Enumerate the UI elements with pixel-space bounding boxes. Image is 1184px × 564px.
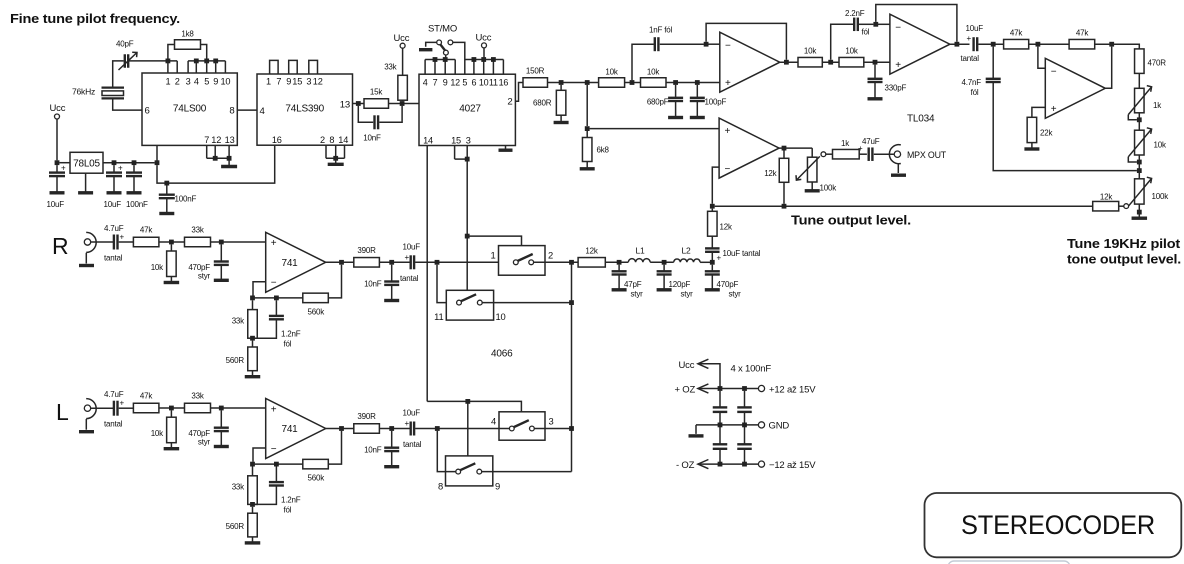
- node: R fb node A: [250, 296, 255, 301]
- capacitor 1.2nF fol (R): [255, 300, 301, 348]
- capacitor 10uF tantal (L out): [403, 409, 422, 450]
- label 4066: [491, 349, 513, 360]
- node: pin8 bottom junction: [333, 156, 338, 161]
- capacitor 470pF styr (L): [188, 410, 228, 446]
- capacitor 470pF styr (R): [188, 244, 228, 280]
- capacitor 4.7uF tantal (R): [104, 224, 125, 263]
- svg-text:10k: 10k: [151, 429, 164, 438]
- wire to opamp U4A +: [666, 82, 720, 84]
- capacitor 40pF trimmer: [116, 40, 137, 71]
- svg-text:+12 až 15V: +12 až 15V: [769, 384, 816, 395]
- svg-text:12k: 12k: [764, 169, 777, 178]
- resistor 1k (mpx): [833, 139, 860, 159]
- node: U4A output: [784, 60, 789, 65]
- resistor 10k (d): [839, 47, 864, 67]
- svg-text:7: 7: [276, 77, 281, 87]
- svg-text:−12 až 15V: −12 až 15V: [769, 460, 816, 471]
- svg-text:47pF: 47pF: [624, 280, 642, 289]
- resistor 15k: [364, 88, 389, 109]
- svg-text:470pF: 470pF: [717, 280, 739, 289]
- svg-text:8: 8: [438, 481, 443, 492]
- power net Ucc (osc): [394, 33, 410, 75]
- node: 6k8 branch junction: [585, 80, 590, 85]
- wire R inverting input: [253, 282, 266, 296]
- svg-text:fól: fól: [284, 340, 292, 349]
- capacitor 10uF (output): [104, 164, 124, 210]
- node: -OZ rail A: [718, 462, 723, 467]
- resistor 560R (L): [226, 507, 261, 543]
- wire L output: [326, 428, 354, 430]
- wire 1k to 10k: [1138, 113, 1140, 130]
- IC U1 74LS00: [142, 73, 237, 145]
- capacitor 10nF (osc): [358, 106, 402, 143]
- svg-text:8: 8: [329, 135, 334, 145]
- svg-text:Ucc: Ucc: [679, 360, 695, 371]
- connector L input: [56, 399, 96, 432]
- svg-text:680pF: 680pF: [647, 98, 669, 107]
- resistor 390R (R): [354, 246, 380, 267]
- svg-text:4: 4: [194, 77, 199, 87]
- node: L fb node A: [250, 462, 255, 467]
- svg-text:78L05: 78L05: [73, 159, 100, 170]
- svg-text:3: 3: [186, 77, 191, 87]
- node: -OZ rail B: [742, 462, 747, 467]
- svg-text:1k: 1k: [841, 139, 850, 148]
- capacitor 100nF (output): [126, 165, 148, 209]
- node: R 10nF junction: [389, 260, 394, 265]
- resistor 6k8: [580, 131, 610, 169]
- svg-text:Fine tune pilot frequency.: Fine tune pilot frequency.: [10, 12, 180, 26]
- node: 100nF decoupling junction: [164, 181, 169, 186]
- wire L2 out: [700, 261, 712, 263]
- wire U4B feedback: [876, 5, 957, 42]
- wire to U4D inverting input: [1038, 47, 1045, 69]
- svg-text:4 x 100nF: 4 x 100nF: [731, 364, 772, 375]
- wire 4.7nF to ladder tap: [993, 82, 1137, 171]
- wire 12k to L1: [605, 261, 628, 263]
- svg-text:10uF tantal: 10uF tantal: [723, 249, 761, 258]
- wire 470R to 1k: [1138, 73, 1140, 88]
- svg-text:Ucc: Ucc: [394, 33, 410, 44]
- wire U4C output: [779, 147, 812, 149]
- wire switch1-2 out: [534, 261, 579, 263]
- svg-text:3: 3: [549, 416, 554, 427]
- wire supply rail to 74LS390 pin16: [157, 145, 275, 183]
- label 4x100nF: [731, 364, 772, 375]
- node: 330pF junction: [873, 60, 878, 65]
- wire U4D output: [1105, 47, 1111, 89]
- svg-text:741: 741: [281, 258, 298, 269]
- svg-text:+: +: [271, 404, 277, 415]
- power net +OZ: [675, 384, 759, 395]
- svg-text:tantal: tantal: [961, 54, 980, 63]
- svg-text:47k: 47k: [1076, 29, 1089, 38]
- wire 47k-33k (R): [159, 241, 185, 243]
- svg-text:13: 13: [340, 100, 350, 111]
- node: control R junction: [465, 234, 470, 239]
- wire control L-group: [427, 401, 521, 456]
- svg-text:10uF: 10uF: [47, 200, 65, 209]
- wire 150R to 10k: [548, 82, 599, 84]
- node: pin9 bus junction: [443, 57, 448, 62]
- wire psu mid A: [719, 412, 721, 444]
- svg-text:12k: 12k: [1100, 193, 1113, 202]
- svg-text:33k: 33k: [232, 483, 245, 492]
- svg-text:Ucc: Ucc: [476, 33, 492, 44]
- svg-text:14: 14: [338, 135, 348, 145]
- svg-text:+: +: [725, 126, 731, 137]
- node: R 470pF junction: [219, 240, 224, 245]
- wire pin8 to 74LS390 pin4: [237, 109, 257, 111]
- svg-text:+: +: [725, 78, 731, 89]
- wire to opamp U4C +: [590, 128, 720, 130]
- svg-text:7: 7: [433, 78, 438, 88]
- svg-text:560k: 560k: [308, 308, 326, 317]
- svg-text:2.2nF: 2.2nF: [845, 9, 865, 18]
- node: bus top junction: [569, 260, 574, 265]
- capacitor 680pF: [647, 85, 683, 118]
- svg-text:10k: 10k: [1154, 141, 1167, 150]
- svg-text:+: +: [405, 419, 410, 428]
- capacitor 10nF (R): [364, 265, 399, 301]
- svg-text:470R: 470R: [1148, 59, 1167, 68]
- wire Ucc rail into regulator: [59, 162, 70, 164]
- node: pin7 bus junction: [433, 57, 438, 62]
- capacitor 4.7uF tantal (L): [104, 390, 125, 429]
- svg-text:15: 15: [292, 77, 302, 87]
- connector MPX OUT: [889, 145, 946, 176]
- svg-text:L2: L2: [681, 246, 691, 256]
- capacitor 10uF (input): [47, 164, 67, 210]
- svg-text:6: 6: [471, 78, 476, 88]
- svg-text:1.2nF: 1.2nF: [281, 330, 301, 339]
- svg-text:R: R: [52, 233, 68, 259]
- node: 1nF branch junction: [630, 80, 635, 85]
- svg-text:12: 12: [211, 135, 221, 145]
- wire GND row: [696, 424, 758, 426]
- svg-text:47k: 47k: [140, 226, 153, 235]
- wire switch11-10 out: [482, 302, 571, 304]
- wire 10uF to switch (R): [415, 261, 513, 263]
- svg-text:10nF: 10nF: [364, 280, 382, 289]
- svg-text:styr: styr: [198, 272, 211, 281]
- capacitor 100nF (psu B1): [737, 391, 752, 412]
- svg-text:+: +: [61, 164, 66, 173]
- resistor 33k (pullup): [384, 63, 407, 102]
- ground psu: [689, 425, 704, 436]
- wire pins 3-10 strap: [188, 60, 225, 62]
- svg-text:L: L: [56, 399, 69, 425]
- node: 120pF junction: [662, 260, 667, 265]
- svg-text:L1: L1: [635, 246, 645, 256]
- svg-text:10: 10: [496, 311, 506, 322]
- ground 74LS390 pins: [328, 158, 344, 164]
- op-amp U4D (TL034): [1045, 58, 1105, 118]
- svg-text:9: 9: [495, 481, 500, 492]
- wire 74LS00 power stub: [156, 145, 158, 162]
- svg-text:100k: 100k: [1152, 192, 1170, 201]
- resistor 22k: [1024, 117, 1053, 149]
- wire R fb rail: [253, 297, 303, 299]
- node: 4.7nF tap junction: [1137, 168, 1142, 173]
- svg-text:3: 3: [306, 77, 311, 87]
- svg-text:4: 4: [491, 416, 496, 427]
- ground 78L05: [78, 173, 93, 193]
- svg-text:10: 10: [479, 78, 489, 88]
- resistor 560k (R): [303, 265, 342, 317]
- resistor 12k (feedback): [764, 151, 789, 204]
- svg-text:fól: fól: [862, 28, 870, 37]
- svg-text:10k: 10k: [151, 263, 164, 272]
- resistor 10k (a): [599, 68, 625, 88]
- svg-text:1nF fól: 1nF fól: [649, 26, 672, 35]
- svg-text:330pF: 330pF: [885, 84, 907, 93]
- resistor 1k8: [168, 30, 207, 59]
- svg-text:10uF: 10uF: [403, 243, 421, 252]
- wire 6k8 branch: [586, 85, 588, 126]
- svg-text:styr: styr: [631, 290, 644, 299]
- svg-text:+: +: [967, 34, 972, 43]
- svg-text:33k: 33k: [384, 63, 397, 72]
- crystal X1 76kHz: [72, 87, 124, 99]
- svg-text:4066: 4066: [491, 349, 513, 360]
- svg-text:10k: 10k: [605, 68, 618, 77]
- svg-text:−: −: [725, 164, 731, 175]
- label tune 19khz: [1067, 236, 1181, 267]
- svg-text:tantal: tantal: [104, 420, 123, 429]
- resistor 390R (L): [354, 412, 380, 433]
- resistor 33k (R fb): [232, 300, 258, 338]
- node: filter out junction: [710, 260, 715, 265]
- svg-text:1k: 1k: [1153, 101, 1162, 110]
- svg-text:560R: 560R: [226, 356, 245, 365]
- svg-text:120pF: 120pF: [669, 280, 691, 289]
- wire L1 to L2: [650, 261, 674, 263]
- svg-text:22k: 22k: [1040, 129, 1053, 138]
- svg-text:12: 12: [313, 77, 323, 87]
- svg-text:+: +: [271, 238, 277, 249]
- svg-text:15: 15: [451, 135, 461, 145]
- wire switch4-3 out: [534, 428, 571, 430]
- node: control L junction: [465, 399, 470, 404]
- capacitor 100nF (psu B2): [737, 444, 752, 464]
- wire 47k-33k (L): [159, 407, 185, 409]
- svg-text:styr: styr: [729, 290, 742, 299]
- wire 10uF to switch (L): [415, 428, 509, 430]
- svg-text:10nF: 10nF: [363, 134, 381, 143]
- svg-text:MPX OUT: MPX OUT: [907, 150, 946, 161]
- node: pin13 junction A: [356, 101, 361, 106]
- resistor 560R (R): [226, 341, 261, 377]
- switch 4066 8-9: [438, 456, 500, 492]
- node: 10uF out junction: [112, 160, 117, 165]
- node: +OZ rail A: [718, 386, 723, 391]
- svg-text:styr: styr: [681, 290, 694, 299]
- wire R output: [326, 261, 354, 263]
- svg-text:Tune 19KHz pilot: Tune 19KHz pilot: [1067, 236, 1181, 251]
- node: U4C output: [782, 146, 787, 151]
- node: pin12 bottom junction: [213, 156, 218, 161]
- node: L 10k junction: [169, 406, 174, 411]
- resistor 47k (b): [1069, 29, 1095, 49]
- inductor L2: [674, 246, 700, 263]
- svg-text:GND: GND: [769, 421, 790, 432]
- power net -OZ: [676, 460, 758, 471]
- label box STEREOCODER: [925, 493, 1182, 557]
- wire 390R to 10uF (L): [379, 428, 410, 430]
- node: GND rail A: [718, 423, 723, 428]
- capacitor 47uF: [858, 137, 880, 161]
- switch 4066 4-3: [491, 412, 554, 440]
- connector R input: [52, 232, 96, 265]
- svg-text:ST/MO: ST/MO: [428, 24, 457, 35]
- svg-text:390R: 390R: [357, 246, 376, 255]
- wire pin strap 3-12: [309, 60, 318, 74]
- svg-text:fól: fól: [284, 506, 292, 515]
- terminal -12: [758, 460, 816, 471]
- resistor 470R: [1135, 49, 1167, 74]
- wire crystal to pin 6: [113, 100, 142, 111]
- svg-text:styr: styr: [198, 438, 211, 447]
- potentiometer 10k: [1128, 128, 1167, 162]
- wires 74LS390 bottom pins 2,8,14: [326, 145, 345, 158]
- capacitor 330pF: [868, 65, 907, 99]
- node: pin13 junction B: [400, 101, 405, 106]
- node: U4B inverting input: [873, 22, 878, 27]
- wire U4B output: [950, 43, 970, 45]
- switch 4066 1-2: [490, 246, 553, 276]
- svg-text:1: 1: [490, 250, 495, 261]
- node: R fb node B: [274, 296, 279, 301]
- wire to opamp (L): [211, 407, 266, 409]
- wire U4C inverting input: [712, 167, 719, 204]
- wire 40pF to crystal: [113, 61, 124, 87]
- wires 4027 top pin risers: [425, 60, 503, 75]
- svg-text:9: 9: [443, 78, 448, 88]
- svg-text:−: −: [271, 278, 277, 289]
- resistor 47k (R): [133, 226, 159, 247]
- svg-text:100pF: 100pF: [705, 98, 727, 107]
- node: L 33k bottom: [250, 502, 255, 507]
- svg-text:11: 11: [434, 311, 443, 322]
- svg-text:Ucc: Ucc: [50, 103, 66, 114]
- node: 680R junction: [559, 80, 564, 85]
- resistor 10k (b): [641, 68, 667, 88]
- capacitor 10uF tantal (R out): [400, 243, 420, 284]
- svg-text:1.2nF: 1.2nF: [281, 496, 301, 505]
- power net Ucc (4027): [476, 33, 492, 60]
- node: 680pF junction: [673, 80, 678, 85]
- wires 74LS00 top pins: [168, 61, 226, 73]
- capacitor 120pF styr: [657, 265, 694, 299]
- svg-text:1k8: 1k8: [181, 30, 194, 39]
- svg-text:+: +: [1051, 104, 1057, 115]
- svg-text:−: −: [1051, 67, 1057, 78]
- resistor 560k (L): [303, 431, 342, 483]
- svg-text:4027: 4027: [459, 104, 481, 115]
- svg-text:7: 7: [204, 135, 209, 145]
- terminal GND: [758, 421, 789, 432]
- node: 100nF junction: [132, 160, 137, 165]
- svg-text:12k: 12k: [720, 223, 733, 232]
- svg-text:680R: 680R: [533, 99, 552, 108]
- svg-text:10k: 10k: [804, 47, 817, 56]
- node: R switch junction: [435, 260, 440, 265]
- wire L fb rail: [253, 463, 303, 465]
- op-amp 741 (R): [266, 232, 326, 292]
- svg-text:+: +: [895, 60, 901, 71]
- svg-text:−: −: [895, 23, 901, 34]
- svg-text:33k: 33k: [232, 317, 245, 326]
- svg-text:47k: 47k: [1010, 29, 1023, 38]
- node: U4C inv node: [710, 204, 715, 209]
- node: pin5 junction: [204, 59, 209, 64]
- svg-text:TL034: TL034: [907, 114, 935, 125]
- svg-text:33k: 33k: [191, 392, 204, 401]
- label box shadow (partial): [948, 561, 1070, 564]
- potentiometer 100k (mpx): [796, 148, 837, 192]
- wire 4027 pin2 out: [515, 83, 523, 102]
- capacitor 100nF (psu A2): [713, 444, 728, 464]
- node: 1k/10k junction: [1137, 117, 1142, 122]
- svg-text:4: 4: [423, 78, 428, 88]
- capacitor 47pF styr: [612, 265, 644, 299]
- svg-text:14: 14: [423, 135, 433, 145]
- wire control R-group: [467, 236, 521, 290]
- wire wiper to 1k: [826, 153, 833, 155]
- svg-text:9: 9: [213, 77, 218, 87]
- op-amp U4C (TL034): [719, 118, 779, 178]
- node: U4A inverting input: [704, 42, 709, 47]
- svg-text:−: −: [271, 444, 277, 455]
- svg-text:tantal: tantal: [400, 274, 419, 283]
- node: 100k bottom junction: [1137, 210, 1142, 215]
- wire to 47k (L): [119, 407, 134, 409]
- node: 10k bottom junction: [1137, 160, 1142, 165]
- wires 4027 pins 15,3: [455, 146, 468, 160]
- svg-text:STEREOCODER: STEREOCODER: [961, 510, 1155, 540]
- svg-text:150R: 150R: [526, 67, 545, 76]
- svg-text:+: +: [120, 399, 125, 408]
- svg-text:10uF: 10uF: [403, 409, 421, 418]
- switch 4066 11-10: [434, 290, 505, 322]
- svg-text:+: +: [405, 253, 410, 262]
- wire pin13 rail: [353, 103, 420, 105]
- resistor 12k (audio): [578, 247, 605, 268]
- svg-text:16: 16: [272, 135, 282, 145]
- svg-text:10k: 10k: [647, 68, 660, 77]
- wire psu mid B: [744, 412, 746, 444]
- svg-text:tantal: tantal: [403, 440, 422, 449]
- svg-text:10nF: 10nF: [364, 446, 382, 455]
- svg-text:74LS00: 74LS00: [173, 104, 207, 115]
- svg-text:13: 13: [225, 135, 235, 145]
- ground 74LS00 logic pins: [221, 158, 237, 166]
- resistor 47k (L): [133, 392, 159, 413]
- switch ST/MO: [419, 24, 465, 60]
- node: U4D output junction: [1109, 42, 1114, 47]
- svg-text:10: 10: [220, 77, 230, 87]
- resistor 12k (pilot): [1093, 193, 1119, 211]
- power net Ucc (psu): [679, 359, 721, 388]
- svg-text:15k: 15k: [370, 88, 383, 97]
- capacitor 100nF (decoupling): [159, 186, 197, 214]
- resistor 33k (R): [185, 226, 211, 247]
- capacitor 10uF tantal (sum): [705, 248, 761, 262]
- ground pilot ladder: [1132, 204, 1148, 218]
- resistor 680R: [533, 85, 569, 123]
- resistor 10k (R): [151, 244, 179, 282]
